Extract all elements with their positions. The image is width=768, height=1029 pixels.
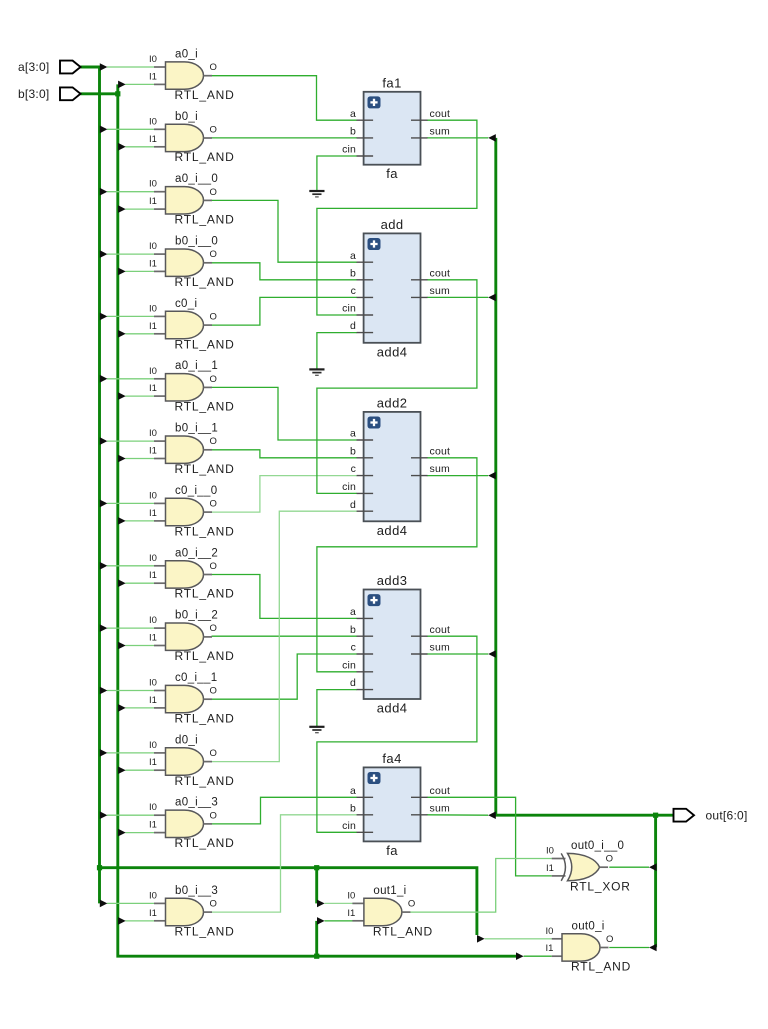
input port a[3:0] xyxy=(18,60,81,74)
wire net to b0_i__3 I0 xyxy=(107,902,154,904)
svg-text:RTL_AND: RTL_AND xyxy=(571,960,631,974)
svg-text:cout: cout xyxy=(430,108,451,120)
svg-text:I1: I1 xyxy=(149,71,157,82)
wire net b bit to a0_i__1 I1 xyxy=(125,395,154,397)
svg-text:RTL_AND: RTL_AND xyxy=(175,587,235,601)
module fa1 (fa) xyxy=(342,75,450,181)
junction b bus xyxy=(115,91,120,96)
svg-text:RTL_AND: RTL_AND xyxy=(175,774,235,788)
wire out0_i O to out bus xyxy=(609,947,649,949)
svg-text:cin: cin xyxy=(342,144,356,156)
wire add sum to out bus xyxy=(427,296,488,298)
svg-text:a: a xyxy=(350,108,356,120)
svg-text:O: O xyxy=(210,561,217,572)
svg-text:O: O xyxy=(210,810,217,821)
and gate a0_i xyxy=(149,49,235,102)
bus tap arrow a0_i__0 I1 xyxy=(118,205,126,213)
and gate b0_i__1 xyxy=(149,423,235,476)
svg-text:O: O xyxy=(606,934,613,945)
out bus tap arrow out0_i__0 O xyxy=(649,863,657,871)
wire net a bit to b0_i__0 I0 xyxy=(107,253,154,255)
wire net a bit to a0_i__1 I0 xyxy=(107,378,154,380)
wire b0_i__1 O to add2 b xyxy=(212,450,358,458)
svg-text:add4: add4 xyxy=(377,523,408,538)
svg-text:I0: I0 xyxy=(149,890,157,901)
svg-text:I1: I1 xyxy=(149,633,157,644)
svg-text:RTL_AND: RTL_AND xyxy=(373,924,433,938)
svg-text:I1: I1 xyxy=(149,258,157,269)
wire add3 sum to out bus xyxy=(427,653,488,655)
bus tap arrow c0_i I0 xyxy=(100,313,108,321)
svg-text:O: O xyxy=(210,748,217,759)
wire net a bit to a0_i__2 I0 xyxy=(107,565,154,567)
svg-text:cout: cout xyxy=(430,445,451,457)
bus tap arrow d0_i I1 xyxy=(118,767,126,775)
out bus tap arrow out0_i O xyxy=(649,944,657,952)
svg-text:a[3:0]: a[3:0] xyxy=(18,60,50,74)
svg-text:I0: I0 xyxy=(149,241,157,252)
svg-text:I0: I0 xyxy=(546,926,554,937)
wire net b bit to c0_i__0 I1 xyxy=(125,520,154,522)
wire bus out[6:0] to port xyxy=(496,138,674,815)
svg-text:a0_i__0: a0_i__0 xyxy=(175,173,218,185)
svg-text:I0: I0 xyxy=(546,846,554,857)
bus tap arrow a0_i I0 xyxy=(100,63,108,71)
svg-text:I1: I1 xyxy=(149,508,157,519)
svg-text:b0_i__1: b0_i__1 xyxy=(175,423,218,435)
module add (add4) xyxy=(342,217,450,359)
svg-text:d: d xyxy=(350,677,356,689)
svg-text:I1: I1 xyxy=(149,196,157,207)
svg-text:I0: I0 xyxy=(347,890,355,901)
module fa4 (fa) xyxy=(342,751,450,858)
and gate out1_i xyxy=(347,885,433,938)
svg-text:RTL_AND: RTL_AND xyxy=(175,462,235,476)
svg-text:out[6:0]: out[6:0] xyxy=(706,809,748,823)
junction out1_i I1 tap xyxy=(314,954,319,959)
svg-text:RTL_AND: RTL_AND xyxy=(175,88,235,102)
wire b0_i__0 O to add b xyxy=(212,263,358,280)
svg-text:a0_i__1: a0_i__1 xyxy=(175,360,218,372)
svg-text:sum: sum xyxy=(430,126,450,138)
bus tap arrow b0_i__3 I0 xyxy=(100,900,108,908)
wire net b bit to d0_i I1 xyxy=(125,769,154,771)
wire b0_i__2 O to add3 b xyxy=(212,635,358,637)
svg-text:b: b xyxy=(350,126,356,138)
svg-text:add3: add3 xyxy=(377,573,408,588)
wire net a bit to b0_i__1 I0 xyxy=(107,440,154,442)
svg-text:RTL_AND: RTL_AND xyxy=(175,524,235,538)
svg-text:c0_i__0: c0_i__0 xyxy=(175,485,217,497)
and gate out0_i xyxy=(546,920,632,973)
svg-text:I1: I1 xyxy=(546,863,554,874)
wire net a bit to b0_i I0 xyxy=(107,128,154,130)
svg-text:out1_i: out1_i xyxy=(373,885,406,897)
module add3 (add4) xyxy=(342,573,450,716)
and gate a0_i__0 xyxy=(149,173,235,226)
and gate b0_i__0 xyxy=(149,236,235,289)
svg-text:fa: fa xyxy=(386,843,398,858)
bus tap arrow c0_i__1 I0 xyxy=(100,687,108,695)
svg-text:a: a xyxy=(350,428,356,440)
wire net a bit to b0_i__2 I0 xyxy=(107,627,154,629)
svg-text:RTL_AND: RTL_AND xyxy=(175,400,235,414)
svg-text:a: a xyxy=(350,250,356,262)
svg-text:cin: cin xyxy=(342,303,356,315)
out bus tap arrow fa1 sum xyxy=(488,134,496,142)
wire a0_i__1 O to add2 a xyxy=(212,387,358,440)
out bus tap arrow fa4 sum xyxy=(488,811,496,819)
junction a bus branch xyxy=(97,865,102,870)
svg-text:a0_i__2: a0_i__2 xyxy=(175,547,218,559)
svg-text:RTL_AND: RTL_AND xyxy=(175,836,235,850)
svg-text:b0_i__0: b0_i__0 xyxy=(175,236,218,248)
svg-text:c0_i__1: c0_i__1 xyxy=(175,672,217,684)
wire out1_i O to out0_i__0 I0 xyxy=(410,859,552,913)
svg-text:I1: I1 xyxy=(149,820,157,831)
svg-text:b0_i__3: b0_i__3 xyxy=(175,885,218,897)
wire fa1 cout to add cin xyxy=(317,120,477,315)
svg-text:O: O xyxy=(408,899,415,910)
bus tap arrow c0_i I1 xyxy=(118,330,126,338)
svg-text:I0: I0 xyxy=(149,366,157,377)
wire bus a tap to out1_i I0 xyxy=(315,868,318,904)
wire bus b[3:0] from port xyxy=(80,92,118,95)
wire net a bit to a0_i__3 I0 xyxy=(107,814,154,816)
svg-text:cout: cout xyxy=(430,785,451,797)
wire bus a branch to out0_i xyxy=(100,868,477,935)
svg-text:I1: I1 xyxy=(149,695,157,706)
wire c0_i O to add c xyxy=(212,297,358,325)
svg-text:O: O xyxy=(210,249,217,260)
svg-text:a0_i__3: a0_i__3 xyxy=(175,797,218,809)
svg-text:I1: I1 xyxy=(149,134,157,145)
wire net to out1_i I0 xyxy=(325,902,353,904)
svg-text:d0_i: d0_i xyxy=(175,734,198,746)
bus tap arrow a0_i__1 I0 xyxy=(100,375,108,383)
wire net a bit to a0_i I0 xyxy=(107,66,154,68)
wire fa1 cin to ground xyxy=(317,156,357,191)
svg-text:O: O xyxy=(606,854,613,865)
wire net a bit to d0_i I0 xyxy=(107,752,154,754)
and gate b0_i__3 xyxy=(149,885,235,938)
bus tap arrow d0_i I0 xyxy=(100,749,108,757)
wire bus out branch to gate outputs xyxy=(654,815,657,947)
junction out1_i I0 tap xyxy=(314,865,319,870)
wire add2 sum to out bus xyxy=(427,475,488,477)
svg-text:a0_i: a0_i xyxy=(175,49,198,61)
svg-text:I0: I0 xyxy=(149,116,157,127)
bus tap arrow b0_i__0 I0 xyxy=(100,250,108,258)
svg-text:out0_i: out0_i xyxy=(572,920,605,932)
wire net b bit to b0_i__0 I1 xyxy=(125,270,154,272)
svg-text:out0_i__0: out0_i__0 xyxy=(571,840,624,852)
wire a0_i__2 O to add3 a xyxy=(212,575,358,619)
wire bus b vertical and bottom run xyxy=(118,84,516,956)
bus tap arrow c0_i__1 I1 xyxy=(118,704,126,712)
svg-text:O: O xyxy=(210,436,217,447)
wire net a bit to c0_i__1 I0 xyxy=(107,690,154,692)
wire add3 cout to fa4 cin xyxy=(317,636,477,832)
svg-text:fa4: fa4 xyxy=(382,751,401,766)
bus tap arrow a0_i__2 I1 xyxy=(118,579,126,587)
svg-text:I0: I0 xyxy=(149,802,157,813)
svg-text:b[3:0]: b[3:0] xyxy=(18,87,50,101)
svg-text:c: c xyxy=(351,642,356,654)
svg-text:add4: add4 xyxy=(377,344,408,359)
svg-text:add: add xyxy=(381,217,404,232)
svg-text:I1: I1 xyxy=(149,570,157,581)
bus tap arrow b0_i__2 I1 xyxy=(118,642,126,650)
svg-text:b0_i__2: b0_i__2 xyxy=(175,610,218,622)
and gate a0_i__1 xyxy=(149,360,235,413)
svg-text:sum: sum xyxy=(430,285,450,297)
svg-text:b0_i: b0_i xyxy=(175,111,198,123)
bus tap arrow a0_i__1 I1 xyxy=(118,392,126,400)
svg-text:O: O xyxy=(210,312,217,323)
svg-text:I1: I1 xyxy=(149,908,157,919)
svg-text:b: b xyxy=(350,802,356,814)
wire add2 cout to add3 cin xyxy=(317,458,477,672)
svg-text:b: b xyxy=(350,445,356,457)
bus tap arrow a0_i__3 I0 xyxy=(100,811,108,819)
bus tap arrow out1_i I0 xyxy=(317,900,325,908)
out bus tap arrow add3 sum xyxy=(488,650,496,658)
svg-text:I1: I1 xyxy=(546,943,554,954)
ground below add xyxy=(309,369,324,375)
wire bus a[3:0] vertical xyxy=(80,67,99,903)
svg-text:RTL_AND: RTL_AND xyxy=(175,337,235,351)
wire net a bit to c0_i I0 xyxy=(107,315,154,317)
svg-text:O: O xyxy=(210,124,217,135)
svg-text:O: O xyxy=(210,374,217,385)
wire out0_i__0 O to out bus xyxy=(609,866,649,868)
bus tap arrow b0_i__0 I1 xyxy=(118,268,126,276)
module add2 (add4) xyxy=(342,395,450,537)
svg-text:RTL_AND: RTL_AND xyxy=(175,924,235,938)
svg-text:c: c xyxy=(351,285,356,297)
bus tap arrow c0_i__0 I1 xyxy=(118,517,126,525)
svg-text:c0_i: c0_i xyxy=(175,298,197,310)
svg-text:I0: I0 xyxy=(149,179,157,190)
svg-text:I0: I0 xyxy=(149,54,157,65)
svg-text:cin: cin xyxy=(342,481,356,493)
wire net to out1_i I1 xyxy=(325,920,353,922)
wire net a bit to a0_i__0 I0 xyxy=(107,191,154,193)
wire net b bit to b0_i I1 xyxy=(125,146,154,148)
bus tap arrow a0_i__3 I1 xyxy=(118,829,126,837)
svg-text:sum: sum xyxy=(430,642,450,654)
svg-text:O: O xyxy=(210,62,217,73)
svg-text:RTL_AND: RTL_AND xyxy=(175,213,235,227)
wire add cout to add2 cin xyxy=(317,280,477,494)
svg-text:RTL_AND: RTL_AND xyxy=(175,275,235,289)
svg-text:fa: fa xyxy=(386,166,398,181)
svg-text:RTL_AND: RTL_AND xyxy=(175,150,235,164)
and gate d0_i xyxy=(149,734,235,787)
and gate b0_i__2 xyxy=(149,610,235,663)
svg-text:sum: sum xyxy=(430,463,450,475)
svg-text:sum: sum xyxy=(430,802,450,814)
wire fa4 cout to out0_i__0 I1 xyxy=(427,797,552,876)
svg-text:I1: I1 xyxy=(149,446,157,457)
svg-text:cin: cin xyxy=(342,820,356,832)
bus tap arrow c0_i__0 I0 xyxy=(100,500,108,508)
wire net b bit to b0_i__2 I1 xyxy=(125,645,154,647)
bus tap arrow a0_i I1 xyxy=(118,81,126,89)
wire net b bit to c0_i I1 xyxy=(125,333,154,335)
wire net to out0_i I0 xyxy=(485,938,552,940)
out bus tap arrow add2 sum xyxy=(488,472,496,480)
wire net b bit to a0_i__3 I1 xyxy=(125,832,154,834)
wire b0_i__3 O to fa4 b xyxy=(212,815,358,912)
wire net b bit to c0_i__1 I1 xyxy=(125,707,154,709)
and gate b0_i xyxy=(149,111,235,164)
wire fa1 sum to out bus xyxy=(427,137,488,139)
wire c0_i__1 O to add3 c xyxy=(212,654,358,699)
svg-text:O: O xyxy=(210,899,217,910)
wire net to out0_i I1 xyxy=(524,955,552,957)
out bus tap arrow add sum xyxy=(488,294,496,302)
bus tap arrow b0_i__3 I1 xyxy=(118,917,126,925)
svg-text:b: b xyxy=(350,267,356,279)
svg-text:add2: add2 xyxy=(377,395,408,410)
svg-text:I1: I1 xyxy=(149,757,157,768)
xor gate out0_i__0 xyxy=(546,840,631,893)
svg-text:I0: I0 xyxy=(149,553,157,564)
svg-text:I0: I0 xyxy=(149,615,157,626)
bus tap arrow out0_i I1 xyxy=(516,952,524,960)
wire a0_i__3 O to fa4 a xyxy=(212,797,358,824)
wire a0_i__0 O to add a xyxy=(212,200,358,262)
svg-text:I0: I0 xyxy=(149,740,157,751)
svg-text:O: O xyxy=(210,187,217,198)
wire c0_i__0 O to add2 c xyxy=(212,476,358,512)
svg-text:cout: cout xyxy=(430,624,451,636)
svg-text:cout: cout xyxy=(430,267,451,279)
input port b[3:0] xyxy=(18,87,81,101)
wire net b bit to a0_i__0 I1 xyxy=(125,208,154,210)
svg-text:RTL_XOR: RTL_XOR xyxy=(570,879,631,893)
svg-text:I1: I1 xyxy=(149,321,157,332)
svg-text:d: d xyxy=(350,499,356,511)
wire add3 d to ground xyxy=(317,690,357,727)
svg-text:add4: add4 xyxy=(377,701,408,716)
bus tap arrow b0_i__1 I1 xyxy=(118,455,126,463)
and gate c0_i__1 xyxy=(149,672,235,725)
svg-text:RTL_AND: RTL_AND xyxy=(175,649,235,663)
bus tap arrow b0_i I1 xyxy=(118,143,126,151)
wire net b bit to a0_i__2 I1 xyxy=(125,582,154,584)
and gate c0_i xyxy=(149,298,235,351)
bus tap arrow a0_i__0 I0 xyxy=(100,188,108,196)
svg-text:I1: I1 xyxy=(149,383,157,394)
wire add d to ground xyxy=(317,333,357,370)
svg-text:O: O xyxy=(210,686,217,697)
ground below add3 xyxy=(309,727,324,733)
wire a0_i O to fa1 a xyxy=(212,76,358,121)
wire b0_i O to fa1 b xyxy=(212,137,358,139)
wire d0_i O to add2 d xyxy=(212,511,358,761)
svg-text:a: a xyxy=(350,606,356,618)
wire fa4 sum to out bus xyxy=(427,814,488,816)
svg-text:d: d xyxy=(350,320,356,332)
svg-text:I0: I0 xyxy=(149,428,157,439)
bus tap arrow a0_i__2 I0 xyxy=(100,562,108,570)
bus tap arrow out0_i I0 xyxy=(477,935,485,943)
and gate c0_i__0 xyxy=(149,485,235,539)
and gate a0_i__3 xyxy=(149,797,235,850)
bus tap arrow b0_i__2 I0 xyxy=(100,624,108,632)
svg-text:c: c xyxy=(351,463,356,475)
output port out[6:0] xyxy=(674,809,748,823)
bus tap arrow b0_i I0 xyxy=(100,126,108,134)
svg-text:RTL_AND: RTL_AND xyxy=(175,711,235,725)
svg-text:b: b xyxy=(350,624,356,636)
svg-text:I0: I0 xyxy=(149,490,157,501)
svg-text:O: O xyxy=(210,623,217,634)
svg-text:fa1: fa1 xyxy=(382,75,401,90)
bus tap arrow out1_i I1 xyxy=(317,917,325,925)
svg-text:cin: cin xyxy=(342,659,356,671)
svg-text:I0: I0 xyxy=(149,303,157,314)
wire net to b0_i__3 I1 xyxy=(125,920,154,922)
svg-text:O: O xyxy=(210,499,217,510)
svg-text:a: a xyxy=(350,785,356,797)
ground below fa1 xyxy=(309,191,324,197)
wire net b bit to a0_i I1 xyxy=(125,83,154,85)
bus tap arrow b0_i__1 I0 xyxy=(100,437,108,445)
wire bus b tap to out1_i I1 xyxy=(315,921,318,956)
and gate a0_i__2 xyxy=(149,547,235,600)
svg-text:I1: I1 xyxy=(347,908,355,919)
wire net a bit to c0_i__0 I0 xyxy=(107,502,154,504)
wire net b bit to b0_i__1 I1 xyxy=(125,458,154,460)
svg-text:I0: I0 xyxy=(149,678,157,689)
junction out bus branch xyxy=(653,813,658,818)
